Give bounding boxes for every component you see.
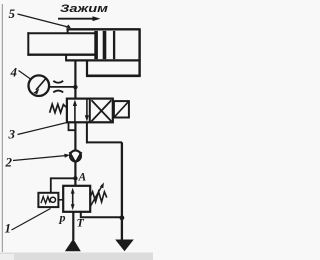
- lower chamber left wall: [86, 60, 88, 76]
- wire: pilot branch: [51, 178, 76, 193]
- wire: P supply line: [72, 212, 74, 240]
- paper background: [0, 0, 153, 260]
- relief valve 1 adjust arrow: [90, 182, 104, 206]
- pressure gauge 4: [29, 75, 50, 96]
- leader 2: [13, 154, 70, 161]
- piston bar 2: [103, 31, 107, 59]
- valve 3 spring: [50, 104, 67, 113]
- wire: T horizontal upper: [86, 141, 122, 143]
- svg-text:p: p: [59, 211, 66, 225]
- lower chamber bottom edge: [86, 75, 141, 78]
- page bottom scan band: [0, 253, 153, 260]
- svg-text:Зажим: Зажим: [60, 3, 108, 15]
- relief valve 1 main block: [63, 186, 90, 212]
- wire: valve A-port stub: [69, 122, 76, 130]
- rod left edge: [27, 32, 29, 55]
- node T junction: [120, 215, 125, 220]
- svg-text:T: T: [77, 216, 85, 230]
- cylinder outer bottom edge: [65, 59, 140, 61]
- wire: check valve to relief block: [74, 163, 76, 186]
- valve 3 solenoid: [114, 101, 129, 117]
- rod (ram) top edge: [27, 32, 95, 34]
- page left scan edge: [1, 4, 3, 252]
- wire: valve to check valve: [74, 122, 76, 150]
- check valve 2: [70, 150, 82, 162]
- tank triangle (drain): [115, 240, 134, 252]
- cylinder outer top edge: [67, 28, 141, 30]
- rod bottom edge: [27, 54, 95, 56]
- directional valve 3 body: [67, 99, 113, 123]
- pilot valve of 1: [38, 193, 58, 207]
- svg-text:5: 5: [9, 6, 16, 21]
- valve 3 left position arrows: [73, 99, 89, 122]
- cylinder 5: [27, 29, 140, 77]
- wire: valve T-port down: [86, 122, 88, 143]
- cylinder right wall: [138, 29, 140, 77]
- wire: gauge branch: [49, 86, 75, 88]
- svg-text:A: A: [78, 172, 87, 184]
- leader 3: [18, 123, 68, 135]
- svg-text:1: 1: [5, 221, 12, 236]
- relief valve 1 flow arrow: [71, 188, 75, 211]
- cylinder left wall lower step: [65, 54, 67, 61]
- svg-text:4: 4: [10, 65, 18, 80]
- wire: block T-port step: [81, 212, 122, 218]
- arrow Зажим: [58, 16, 101, 21]
- wire: T vertical main: [121, 142, 123, 239]
- throttle arcs: [53, 81, 63, 93]
- supply triangle (pump): [65, 239, 81, 252]
- relief valve 1 spring: [90, 192, 106, 202]
- wire: cylinder port to valve: [74, 61, 76, 98]
- svg-text:2: 2: [5, 155, 13, 170]
- svg-text:3: 3: [8, 127, 16, 142]
- valve 3 crossed arrows: [92, 100, 112, 121]
- node pilot junction: [73, 176, 77, 180]
- cylinder left wall upper segment: [67, 29, 69, 34]
- node junction gauge line: [73, 85, 77, 89]
- leader 4: [19, 71, 31, 80]
- cylinder inner wall: [113, 31, 115, 59]
- piston bar 1: [94, 31, 98, 59]
- wire: pilot to main block: [58, 199, 63, 201]
- leader 1: [12, 209, 51, 231]
- leader 5: [18, 14, 71, 28]
